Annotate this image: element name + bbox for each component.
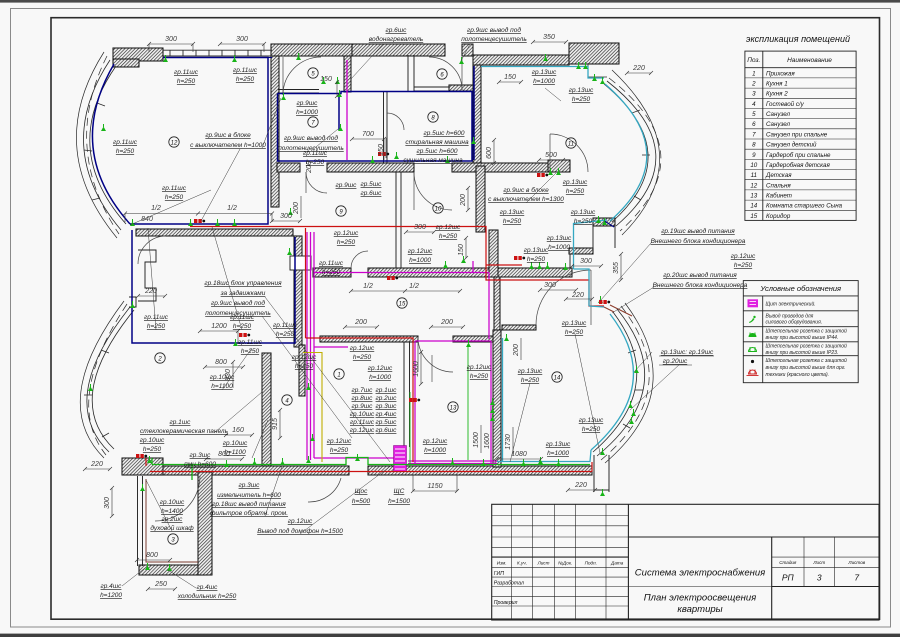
svg-text:220: 220 (571, 292, 584, 299)
svg-text:гр.20шс вывод питания: гр.20шс вывод питания (663, 271, 737, 279)
dim 160 (226, 434, 252, 436)
svg-text:гр.10шс: гр.10шс (140, 437, 165, 444)
svg-text:h=1000: h=1000 (296, 109, 318, 116)
svg-text:гр.19шс вывод питания: гр.19шс вывод питания (661, 227, 735, 235)
svg-text:14: 14 (554, 376, 561, 382)
dim 200 a (345, 326, 377, 328)
svg-text:200: 200 (440, 319, 453, 326)
svg-text:гр.9шс вывод под: гр.9шс вывод под (211, 299, 265, 307)
svg-text:1730: 1730 (505, 434, 512, 450)
door room10 (414, 172, 452, 210)
svg-text:1: 1 (337, 373, 340, 379)
svg-text:гр.12шс: гр.12шс (731, 253, 756, 260)
wall top-right step sides (592, 226, 594, 248)
svg-text:800: 800 (146, 552, 158, 559)
svg-text:h=250: h=250 (470, 373, 489, 380)
svg-text:700: 700 (362, 131, 374, 138)
wire magenta bathroom (346, 60, 348, 160)
svg-text:гр.1шс: гр.1шс (376, 387, 398, 394)
svg-text:h=1400: h=1400 (161, 508, 183, 515)
svg-text:6: 6 (752, 121, 756, 128)
door bottom wall (308, 478, 341, 502)
svg-text:гр.9шс: гр.9шс (297, 100, 319, 107)
legend box (743, 281, 858, 383)
dim 1150 (413, 490, 457, 492)
wire yellow (303, 353, 322, 463)
wall vertical bath/room11 (473, 65, 481, 166)
legend icon: socket IP44 (749, 333, 757, 337)
explication table (745, 51, 856, 220)
wall room4 left (262, 353, 271, 466)
wall kitchen1 right upper (294, 236, 302, 347)
dark strip top edge (0, 0, 900, 3)
svg-text:300: 300 (236, 36, 248, 43)
svg-text:пми h=600: пми h=600 (184, 461, 216, 468)
door room7 (387, 113, 404, 130)
dim 1/2 corridor (351, 290, 460, 292)
wall top-right block (569, 43, 619, 64)
svg-text:гр.10шс: гр.10шс (160, 499, 185, 506)
wire navy arc diag (603, 220, 614, 227)
svg-text:холодильник h=250: холодильник h=250 (177, 592, 237, 600)
svg-text:гр.3шс: гр.3шс (190, 452, 212, 459)
wire navy bathroom loop (278, 92, 473, 162)
label box right (659, 355, 714, 357)
svg-text:Изм.: Изм. (497, 560, 507, 565)
svg-text:Щит электрический.: Щит электрический. (766, 301, 816, 308)
svg-text:11: 11 (568, 142, 574, 148)
svg-text:фильтров обратн. пром.: фильтров обратн. пром. (210, 509, 288, 517)
svg-text:гр.18шс вывод питания: гр.18шс вывод питания (212, 500, 286, 508)
svg-text:2: 2 (751, 81, 756, 88)
svg-text:гр.12шс: гр.12шс (350, 427, 375, 434)
svg-text:силового оборудования.: силового оборудования. (766, 320, 823, 326)
wall corridor bottom right (453, 336, 500, 342)
svg-text:с выключателем h=1000: с выключателем h=1000 (190, 142, 266, 149)
svg-text:h=250: h=250 (572, 96, 591, 103)
wall room14 top (502, 325, 536, 330)
svg-text:Прихожая: Прихожая (766, 70, 795, 77)
wall room14 left (493, 330, 501, 467)
wire red top-right corner (604, 307, 614, 312)
svg-text:гр.5шс h=600: гр.5шс h=600 (417, 148, 458, 155)
svg-text:гр.20шс: гр.20шс (663, 358, 688, 365)
svg-text:h=250: h=250 (353, 354, 372, 361)
thin double walls (129, 55, 615, 566)
svg-text:Коридор: Коридор (766, 213, 791, 220)
window band top-left (163, 50, 272, 56)
wall below bathrooms left (277, 163, 300, 172)
dim 350 (533, 41, 566, 43)
svg-text:h=250: h=250 (521, 377, 540, 384)
svg-text:h=250: h=250 (143, 446, 162, 453)
dim 915 v (279, 410, 281, 438)
svg-text:h=250: h=250 (565, 329, 584, 336)
wall notch lower (129, 297, 136, 307)
svg-text:гр.12шс: гр.12шс (368, 365, 393, 372)
dim 200 v r13 (520, 338, 522, 360)
svg-text:гр.9шс: гр.9шс (352, 403, 374, 410)
svg-text:гр.11шс: гр.11шс (273, 322, 298, 329)
svg-text:8: 8 (752, 142, 756, 149)
svg-text:гр.11шс: гр.11шс (233, 67, 258, 74)
svg-text:№Док.: №Док. (558, 560, 572, 565)
leader lines (122, 44, 680, 588)
wire green kitchen3 (146, 479, 198, 562)
door room14 (536, 270, 591, 325)
svg-text:гр.11шс: гр.11шс (319, 260, 344, 267)
wall vertical room12/bath (271, 56, 279, 207)
dim 800 a (205, 366, 243, 368)
svg-text:150: 150 (504, 74, 516, 81)
svg-text:Детская: Детская (765, 172, 792, 179)
svg-text:гр.12шс: гр.12шс (334, 230, 359, 237)
svg-text:2: 2 (157, 357, 162, 363)
svg-text:гр.8шс: гр.8шс (352, 395, 374, 402)
svg-text:h=250: h=250 (233, 323, 252, 330)
svg-text:3: 3 (817, 573, 822, 583)
svg-text:гр.9шс вывод под: гр.9шс вывод под (467, 26, 521, 34)
svg-text:План электроосвещения: План электроосвещения (644, 593, 756, 604)
wall kitchen3 bottom (139, 565, 205, 575)
svg-text:h=1500: h=1500 (388, 498, 410, 505)
wire cyan bottom-right arc (591, 314, 633, 450)
svg-text:Гардероб при спальне: Гардероб при спальне (766, 152, 831, 159)
svg-text:h=250: h=250 (306, 159, 325, 166)
svg-text:гр.11шс: гр.11шс (162, 185, 187, 192)
bay arc top-left (76, 52, 126, 238)
wall hall vertical lower (494, 277, 500, 336)
dim 300 f (406, 231, 434, 233)
svg-text:гр.12шс: гр.12шс (327, 438, 352, 445)
svg-text:4: 4 (752, 101, 756, 108)
wall corridor top right (368, 268, 572, 277)
svg-text:гр.13шс: гр.13шс (547, 235, 572, 242)
svg-text:h=250: h=250 (165, 194, 184, 201)
wire magenta to board (314, 457, 394, 459)
svg-text:гр.4шс: гр.4шс (101, 583, 123, 590)
svg-text:13: 13 (450, 406, 457, 412)
svg-text:Санузел при спальне: Санузел при спальне (766, 131, 828, 138)
svg-text:Гардеробная детская: Гардеробная детская (766, 162, 830, 169)
svg-text:h=250: h=250 (330, 447, 349, 454)
svg-text:гр.5шс h=600: гр.5шс h=600 (424, 130, 465, 137)
svg-text:Комната старшего Сына: Комната старшего Сына (766, 203, 843, 210)
svg-text:Дата: Дата (610, 560, 624, 565)
svg-text:1: 1 (752, 70, 755, 77)
wall top A (271, 44, 352, 56)
svg-text:гр.5шс: гр.5шс (376, 419, 398, 426)
svg-text:250: 250 (154, 581, 167, 588)
svg-text:3: 3 (752, 91, 756, 98)
svg-text:200: 200 (513, 344, 520, 357)
svg-text:внизу при высотой выше IP44.: внизу при высотой выше IP44. (766, 334, 839, 341)
title block (492, 504, 879, 620)
dim 300 top1 (149, 43, 193, 45)
door room9 top (306, 172, 327, 193)
svg-text:измельчитель h=600: измельчитель h=600 (217, 492, 281, 499)
svg-text:гр.13шс: гр.13шс (569, 87, 594, 94)
dim 300 kitchen (272, 220, 300, 222)
svg-text:гр.13шс: гр.13шс (563, 179, 588, 186)
svg-text:полотенцесушитель: полотенцесушитель (461, 36, 527, 43)
dim 220 tr (627, 72, 651, 74)
svg-text:10: 10 (750, 162, 757, 169)
svg-text:600: 600 (486, 147, 493, 159)
wall below bathrooms right (452, 163, 553, 172)
svg-text:гр.13шс: гр.13шс (524, 247, 549, 254)
svg-text:Проверил: Проверил (494, 600, 518, 606)
door arcs (138, 57, 591, 521)
svg-text:гр.13шс: гр.19шс: гр.13шс: гр.19шс (661, 349, 714, 356)
wall room12 bottom (136, 229, 293, 236)
svg-text:Санузел детский: Санузел детский (766, 142, 817, 149)
dim 250 k3 (148, 588, 175, 590)
dim 1200 (200, 330, 238, 332)
wire red main (146, 227, 604, 472)
feed diagonal cond.blocks (610, 305, 632, 316)
dim 200 b (431, 326, 463, 328)
svg-text:200: 200 (354, 319, 367, 326)
svg-text:1200: 1200 (211, 323, 227, 330)
svg-text:220: 220 (574, 482, 587, 489)
svg-text:Стадия: Стадия (779, 560, 797, 565)
svg-text:12: 12 (750, 182, 757, 189)
svg-text:Штепсельная розетка с защитой: Штепсельная розетка с защитой (766, 328, 848, 335)
svg-text:1500: 1500 (473, 432, 480, 448)
svg-text:11: 11 (751, 172, 757, 179)
svg-text:гр.2шс: гр.2шс (376, 395, 398, 402)
svg-text:Лист: Лист (537, 560, 550, 565)
legend icon: wire outlet (749, 318, 755, 323)
svg-text:Спальня: Спальня (766, 182, 791, 189)
svg-text:сушильная машина: сушильная машина (403, 157, 463, 164)
svg-text:гр.11шс: гр.11шс (174, 69, 199, 76)
wall room1/room13 divider (403, 342, 405, 447)
dim 300 v lk (111, 488, 113, 516)
svg-text:h=1000: h=1000 (369, 374, 391, 381)
dim 355 v (620, 254, 622, 280)
svg-text:Подп.: Подп. (585, 560, 597, 565)
wire navy room12 loop (92, 58, 474, 344)
svg-text:гр.11шс: гр.11шс (303, 150, 328, 157)
svg-text:h=1100: h=1100 (211, 383, 233, 390)
svg-text:гр.11шс: гр.11шс (238, 339, 263, 346)
svg-text:h=250: h=250 (439, 233, 458, 240)
svg-text:К.уч.: К.уч. (517, 560, 527, 565)
dim 1600 v (420, 352, 422, 384)
svg-text:5: 5 (752, 111, 756, 118)
dim 200 v2 (467, 188, 469, 210)
svg-text:гр.9шс: гр.9шс (336, 182, 358, 189)
svg-text:Санузел: Санузел (766, 111, 791, 118)
svg-text:Штепсельная розетка с защитой: Штепсельная розетка с защитой (766, 357, 848, 364)
svg-text:h=250: h=250 (503, 218, 522, 225)
svg-text:гр.10шс: гр.10шс (350, 411, 375, 418)
svg-text:ЩС: ЩС (394, 488, 405, 495)
svg-text:1080: 1080 (511, 451, 527, 458)
dim 300 top2 (220, 43, 264, 45)
svg-text:300: 300 (280, 213, 292, 220)
dim 220 br (568, 489, 595, 491)
wall vertical rooms5-7/8 (344, 56, 351, 92)
svg-text:квартиры: квартиры (677, 604, 722, 615)
svg-text:гр.12шс: гр.12шс (436, 224, 461, 231)
svg-text:гр.9шс в блоке: гр.9шс в блоке (503, 186, 549, 194)
door room5 (283, 57, 321, 95)
svg-text:Внешнего блока кондиционера: Внешнего блока кондиционера (651, 237, 746, 245)
svg-text:гр.10шс: гр.10шс (223, 440, 248, 447)
wall left notch (138, 250, 156, 301)
svg-text:гр.12шс: гр.12шс (408, 248, 433, 255)
svg-text:гр.11шс: гр.11шс (113, 139, 138, 146)
svg-text:h=250: h=250 (116, 148, 135, 155)
wall right stub (593, 455, 595, 492)
svg-text:техники (красного цвета).: техники (красного цвета). (766, 372, 830, 378)
svg-text:350: 350 (543, 34, 555, 41)
dim 930 v (232, 362, 234, 388)
dim 1500 v (480, 425, 482, 453)
dim 220 d (566, 298, 592, 300)
dim 1080 (497, 458, 541, 460)
svg-text:h=500: h=500 (352, 498, 371, 505)
svg-text:гр.4шс: гр.4шс (197, 584, 219, 591)
wall room5/7 (278, 89, 319, 91)
svg-text:h=1000: h=1000 (547, 450, 569, 457)
dim 220 left (85, 468, 110, 470)
svg-text:h=1000: h=1000 (548, 244, 570, 251)
svg-text:гр.11шс: гр.11шс (144, 314, 169, 321)
svg-text:150: 150 (458, 244, 465, 256)
legend icon: socket IP23 (749, 348, 757, 352)
svg-text:200: 200 (293, 202, 300, 215)
svg-text:15: 15 (399, 302, 406, 308)
wire navy top window (163, 57, 272, 59)
svg-text:1/2: 1/2 (151, 205, 161, 212)
svg-text:внизу при высотой выше IP23.: внизу при высотой выше IP23. (766, 349, 839, 356)
door kitchen3 (155, 476, 200, 521)
svg-text:РП: РП (782, 573, 795, 583)
svg-text:160: 160 (232, 427, 244, 434)
svg-text:h=250: h=250 (147, 323, 166, 330)
svg-text:гр.6шс: гр.6шс (386, 27, 408, 34)
svg-text:гр.12шс: гр.12шс (467, 364, 492, 371)
svg-text:h=1100: h=1100 (224, 449, 246, 456)
svg-text:гр.12шс: гр.12шс (288, 518, 313, 525)
svg-text:1150: 1150 (427, 483, 442, 490)
svg-text:Листов: Листов (847, 560, 865, 565)
dim 500 (539, 159, 563, 161)
svg-text:гр.13шс: гр.13шс (546, 441, 571, 448)
dim 1730 v (512, 427, 514, 455)
wall top B (352, 44, 445, 56)
dim 800 k3 (137, 559, 170, 561)
svg-text:гр.18шс блок управления: гр.18шс блок управления (204, 279, 282, 287)
wall hall/room10 upper (476, 166, 485, 232)
svg-text:h=1000: h=1000 (409, 257, 431, 264)
svg-text:гр.1шс: гр.1шс (170, 419, 192, 426)
svg-text:Условные обозначения: Условные обозначения (759, 284, 841, 293)
svg-text:экспликация помещений: экспликация помещений (746, 34, 850, 44)
dim 300 e (572, 265, 601, 267)
svg-text:стеклокерамическая панель: стеклокерамическая панель (140, 428, 229, 435)
svg-text:h=250: h=250 (574, 218, 593, 225)
svg-text:150: 150 (320, 76, 332, 83)
wall room11 niche (548, 160, 570, 172)
svg-text:915: 915 (272, 418, 279, 430)
door room6 (429, 57, 462, 90)
svg-text:гр.3шс: гр.3шс (239, 482, 261, 489)
svg-text:h=1200: h=1200 (100, 592, 122, 599)
svg-text:полотенцесушитель: полотенцесушитель (205, 310, 271, 317)
svg-text:1/2: 1/2 (409, 283, 419, 290)
svg-text:гр.12шс: гр.12шс (350, 345, 375, 352)
wall top-right step (593, 218, 615, 226)
legend icon: electrical board (748, 299, 759, 307)
wall room7/8 (383, 92, 385, 163)
svg-text:гр.13шс: гр.13шс (579, 417, 604, 424)
wall right middle (569, 248, 593, 254)
svg-text:ГИП: ГИП (494, 571, 505, 577)
svg-text:Штепсельная розетка с защитой: Штепсельная розетка с защитой (766, 343, 848, 350)
wall kitchen3 window left (137, 476, 139, 566)
wall corner block left (122, 458, 163, 475)
dark strip bottom edge (0, 634, 900, 637)
svg-text:7: 7 (752, 131, 756, 138)
svg-text:гр.13шс: гр.13шс (562, 320, 587, 327)
svg-text:гр.5шс: гр.5шс (361, 181, 383, 188)
svg-text:Внешнего блока кондиционера: Внешнего блока кондиционера (653, 281, 748, 289)
svg-text:220: 220 (90, 461, 103, 468)
svg-text:1/2: 1/2 (363, 283, 373, 290)
svg-text:14: 14 (750, 203, 757, 210)
wire navy kitchen1 loop (132, 230, 295, 343)
svg-text:220: 220 (632, 65, 645, 72)
svg-text:за задвижками: за задвижками (220, 289, 266, 297)
svg-text:800: 800 (215, 359, 227, 366)
dim 220 notch (138, 295, 165, 297)
door room2 (138, 236, 166, 264)
svg-text:h=250: h=250 (582, 426, 601, 433)
svg-text:стиральная машина: стиральная машина (405, 139, 469, 146)
svg-text:1/2: 1/2 (227, 205, 237, 212)
svg-text:гр.3шс: гр.3шс (376, 403, 398, 410)
dim 150 v3 (385, 138, 387, 158)
svg-text:10: 10 (435, 207, 442, 213)
svg-text:355: 355 (613, 262, 620, 274)
svg-text:220: 220 (144, 288, 157, 295)
svg-text:Санузел: Санузел (766, 121, 791, 128)
closet room9 (290, 256, 311, 270)
svg-text:h=250: h=250 (734, 262, 753, 269)
wall corridor bottom left (320, 336, 418, 342)
svg-text:15: 15 (750, 213, 757, 220)
svg-text:гр.11шс: гр.11шс (350, 419, 375, 426)
dim 700 (352, 138, 384, 140)
svg-text:гр.7шс: гр.7шс (352, 387, 374, 394)
svg-text:Наименование: Наименование (787, 57, 832, 64)
wall kitchen1 right lower (299, 345, 305, 396)
wall room6 bottom hatch (449, 85, 473, 91)
wall room6 left (407, 55, 409, 91)
dim 600 v (493, 140, 495, 163)
dim 800 b (206, 458, 242, 460)
svg-text:водонагреватель: водонагреватель (369, 35, 424, 43)
door room9 (351, 251, 368, 268)
svg-text:Кухня 2: Кухня 2 (766, 91, 788, 98)
svg-text:150: 150 (378, 144, 385, 156)
svg-text:гр.12шс: гр.12шс (292, 354, 317, 361)
